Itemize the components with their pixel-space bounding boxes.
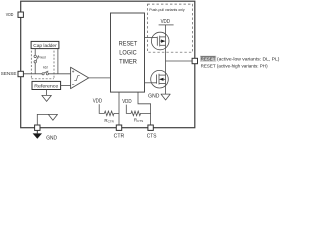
ground arrow (comparator/reference return) xyxy=(48,114,57,120)
pin SENSE xyxy=(1,71,24,77)
comparator U1 xyxy=(71,67,89,88)
pin CTR xyxy=(114,125,125,140)
wire SENSE net xyxy=(23,73,70,75)
resistor RCTR xyxy=(93,99,119,124)
svg-text:RCTS: RCTS xyxy=(134,117,143,123)
svg-text:TIMER: TIMER xyxy=(119,60,137,66)
VDD rail (push-pull stage) xyxy=(159,19,174,25)
GND arrow (NMOS source) xyxy=(148,94,170,100)
RESET LOGIC TIMER block xyxy=(111,13,145,92)
switch ADJ xyxy=(42,66,48,75)
ground arrow below reference xyxy=(42,90,52,102)
svg-text:RESET: RESET xyxy=(201,57,216,62)
wire output to RESET pin xyxy=(166,60,195,62)
svg-text:ADJ: ADJ xyxy=(43,66,48,70)
wire CTS (step) xyxy=(138,92,151,125)
Reference block xyxy=(32,81,61,89)
svg-text:GND: GND xyxy=(148,94,160,100)
switch Fixed xyxy=(34,49,46,74)
svg-text:SENSE: SENSE xyxy=(1,71,17,76)
wire internal ground xyxy=(37,114,53,125)
wire CTR xyxy=(118,92,120,125)
push-pull dashed box xyxy=(148,4,193,52)
svg-text:CTS: CTS xyxy=(147,134,157,140)
pin CTS xyxy=(147,125,157,140)
svg-text:VDD: VDD xyxy=(6,12,14,17)
Cap ladder block xyxy=(31,41,59,48)
svg-text:RCTR: RCTR xyxy=(104,118,114,124)
chip boundary xyxy=(21,1,195,128)
wire PMOS source/drain vertical xyxy=(165,25,167,94)
svg-text:Fixed: Fixed xyxy=(38,55,45,59)
svg-text:GND: GND xyxy=(46,136,57,142)
wire reference to comparator xyxy=(61,85,71,87)
svg-text:CTR: CTR xyxy=(114,134,125,140)
svg-text:Reference: Reference xyxy=(34,83,58,88)
resistor RCTS xyxy=(122,99,150,123)
svg-text:(active-low variants: DL, PL): (active-low variants: DL, PL) xyxy=(217,57,280,62)
svg-text:LOGIC: LOGIC xyxy=(119,51,137,57)
svg-text:Cap ladder: Cap ladder xyxy=(33,43,57,48)
transistor Q1 (PMOS) xyxy=(145,32,170,50)
pin VDD xyxy=(6,12,24,18)
svg-text:Push-pull variants only: Push-pull variants only xyxy=(149,7,184,12)
svg-text:VDD: VDD xyxy=(122,99,132,105)
transistor Q2 (NMOS) xyxy=(145,70,169,88)
svg-text:VDD: VDD xyxy=(161,19,171,25)
pin RESET xyxy=(192,58,197,63)
svg-text:VDD: VDD xyxy=(93,99,103,105)
svg-text:RESET: RESET xyxy=(119,42,138,48)
node label RESET active-low xyxy=(200,56,280,62)
wire cap-ladder tap xyxy=(57,49,59,74)
pin GND xyxy=(33,125,58,142)
svg-text:RESET (active-high variants: P: RESET (active-high variants: PH) xyxy=(201,64,268,69)
dashed trim-option box xyxy=(31,51,54,79)
wire comparator output xyxy=(89,77,111,79)
